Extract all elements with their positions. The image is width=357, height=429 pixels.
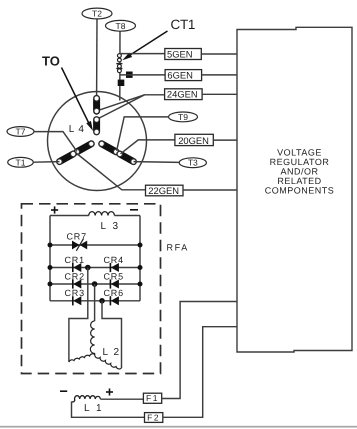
junction dot CR3 row: [99, 298, 105, 304]
label L4: [69, 124, 85, 135]
wire CR1 row: [50, 267, 140, 269]
wire F2 to regulator: [163, 327, 237, 418]
svg-text:5GEN: 5GEN: [167, 48, 193, 59]
wire 5GEN left: [120, 53, 165, 55]
junction dots CR1 row: [48, 265, 143, 271]
svg-text:RELATED: RELATED: [277, 176, 321, 186]
diode CR2: [65, 271, 85, 288]
wire F1 to regulator: [162, 302, 237, 399]
node T2: [82, 8, 112, 19]
inductor L1: [72, 396, 104, 415]
dashed enclosure RFA: [22, 204, 189, 374]
svg-text:L 3: L 3: [101, 221, 121, 232]
CT1 terminal square on T8 line: [118, 80, 125, 86]
left rail of rectifier: [49, 216, 51, 301]
node T7: [7, 127, 34, 137]
junction dot right CR7: [138, 243, 143, 248]
wire CR3 row: [50, 300, 140, 302]
wire phase drop left: [69, 268, 88, 362]
svg-text:F1: F1: [146, 393, 159, 403]
wire 20GEN to winding: [121, 140, 175, 154]
wire 20GEN right: [213, 139, 237, 141]
svg-text:22GEN: 22GEN: [148, 185, 179, 196]
terminal box 22GEN: [146, 185, 184, 196]
wire 6GEN left: [120, 74, 166, 76]
winding L4 phase B outer segment: [57, 151, 76, 164]
svg-text:T1: T1: [16, 157, 26, 167]
wire T7 to winding: [34, 132, 77, 152]
wire T2 lead: [96, 19, 98, 96]
svg-text:L 4: L 4: [69, 124, 85, 135]
junction dots CR2 row: [48, 281, 143, 287]
svg-text:TO: TO: [42, 54, 60, 69]
svg-text:CR6: CR6: [104, 288, 124, 298]
svg-text:CR1: CR1: [65, 255, 85, 265]
CT1 terminal square on 6GEN wire: [126, 72, 133, 78]
svg-text:COMPONENTS: COMPONENTS: [265, 186, 335, 196]
svg-text:CT1: CT1: [171, 17, 196, 32]
wire L1 minus to F2 line: [72, 402, 145, 418]
svg-text:T7: T7: [16, 127, 26, 137]
inductor L3: [50, 212, 140, 232]
diode CR3: [65, 288, 85, 305]
terminal box 6GEN: [165, 70, 202, 81]
node T1: [8, 157, 34, 167]
svg-text:CR7: CR7: [67, 232, 87, 242]
svg-text:T9: T9: [178, 112, 188, 122]
diode CR5: [104, 271, 124, 288]
svg-text:20GEN: 20GEN: [178, 135, 209, 146]
diode CR4: [104, 255, 124, 272]
terminal box 5GEN: [165, 48, 202, 59]
svg-text:6GEN: 6GEN: [167, 70, 193, 81]
svg-text:T2: T2: [92, 9, 102, 19]
terminal box 24GEN: [165, 89, 203, 100]
polarity - on L3 line: [130, 209, 138, 211]
wire 24GEN taps: [97, 95, 165, 120]
wire 6GEN right: [202, 74, 237, 76]
current transformer CT1 winding: [116, 54, 122, 73]
node T3: [179, 158, 206, 168]
wire CR7 row: [50, 244, 140, 246]
svg-text:CR2: CR2: [65, 271, 85, 281]
right rail of rectifier: [139, 216, 141, 301]
voltage regulator box U1: [237, 27, 352, 352]
svg-text:RFA: RFA: [167, 243, 189, 253]
wire phase drop right: [102, 301, 122, 368]
scan edge artifact: [0, 426, 357, 428]
polarity + on L3 line: [51, 206, 58, 213]
inductor L2 three-phase winding: [69, 321, 122, 369]
wire 24GEN right: [202, 93, 237, 95]
winding L4 phase C inner segment: [99, 141, 119, 154]
svg-text:CR5: CR5: [104, 271, 124, 281]
svg-text:CR4: CR4: [104, 255, 124, 265]
label TO with arrow: [42, 54, 93, 132]
node T9: [169, 112, 198, 122]
wire 22GEN right: [183, 189, 237, 191]
svg-text:F2: F2: [147, 412, 160, 422]
wire T8 lead: [119, 31, 121, 101]
diode CR1: [65, 255, 85, 272]
svg-text:T3: T3: [188, 158, 198, 168]
winding L4 phase B inner segment: [74, 141, 94, 154]
generator stator circle: [48, 92, 147, 191]
winding L4 phase C outer segment: [117, 151, 136, 164]
svg-text:AND/OR: AND/OR: [280, 167, 318, 177]
winding L4 phase A lower segment: [94, 117, 99, 134]
label CT1 with arrow: [122, 17, 195, 60]
suppressor CR7: [67, 232, 88, 251]
svg-text:T8: T8: [116, 21, 126, 31]
node T8: [106, 20, 136, 31]
diode CR6: [104, 288, 124, 305]
svg-text:VOLTAGE: VOLTAGE: [277, 148, 322, 158]
svg-text:L 1: L 1: [84, 403, 104, 414]
svg-text:CR3: CR3: [65, 288, 85, 298]
terminal box F1: [143, 393, 161, 403]
junction dot left CR7: [48, 243, 53, 248]
wire T3 to winding: [134, 161, 180, 164]
wire CR2 row: [50, 283, 140, 285]
wire T1 to winding: [33, 161, 59, 164]
polarity - on L1: [60, 390, 67, 392]
svg-text:24GEN: 24GEN: [167, 89, 198, 100]
polarity + on L1: [106, 389, 113, 396]
terminal box F2: [145, 412, 163, 422]
svg-text:L 2: L 2: [103, 347, 121, 358]
wire L1 to F1: [100, 398, 143, 400]
winding L4 phase A upper segment: [94, 96, 99, 114]
wire 22GEN to winding: [76, 153, 146, 190]
wire T9 to winding: [117, 117, 169, 151]
wire 5GEN right: [201, 53, 237, 55]
svg-text:REGULATOR: REGULATOR: [270, 157, 330, 167]
terminal box 20GEN: [175, 134, 213, 146]
wire phase drop middle: [94, 284, 96, 321]
